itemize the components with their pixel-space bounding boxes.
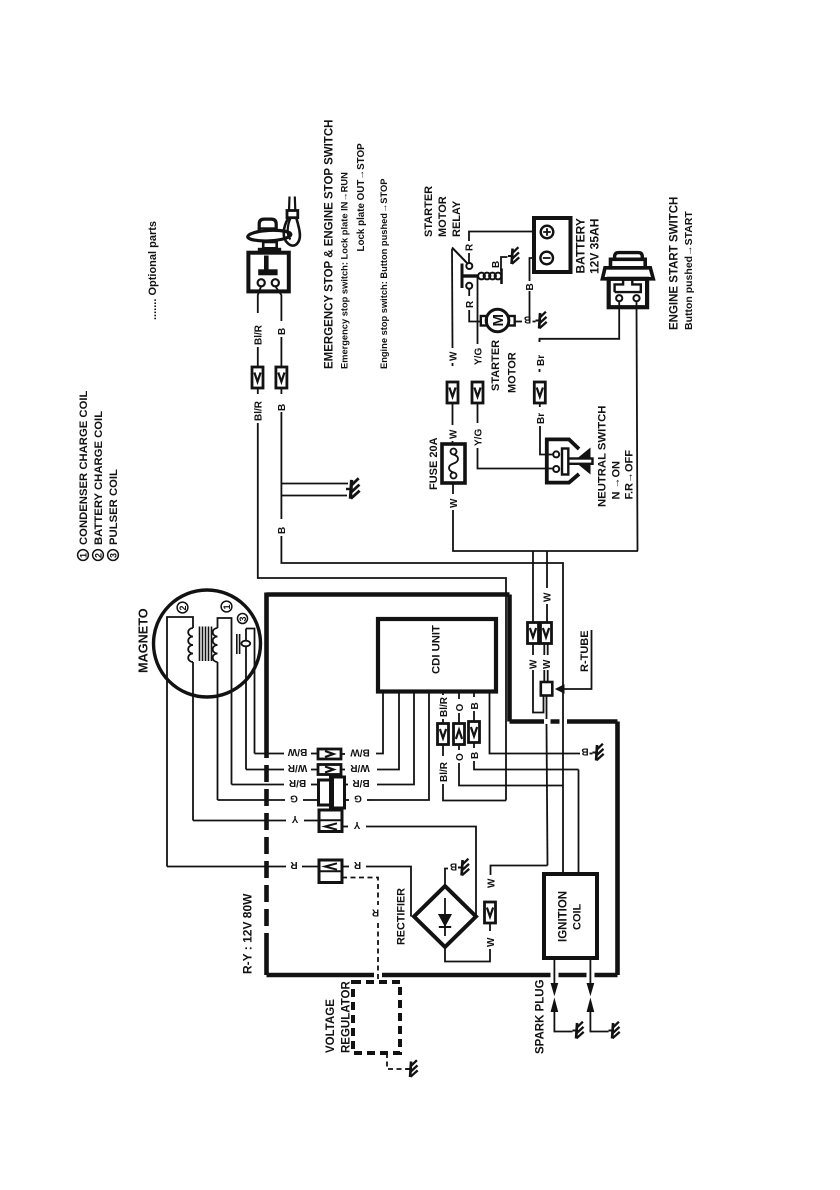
engine border left dashed part (264, 741, 269, 950)
legend circled 3 (108, 550, 119, 561)
svg-text:B: B (491, 261, 502, 268)
svg-text:IGNITION: IGNITION (558, 891, 570, 942)
start switch bezel (602, 268, 653, 279)
connector W left (528, 623, 539, 644)
pulser coil bottom lead (245, 655, 247, 770)
Y row (193, 820, 286, 822)
svg-text:Bl/R: Bl/R (254, 400, 265, 421)
battery box (534, 218, 571, 272)
svg-text:R: R (353, 859, 361, 870)
rectifier diode (444, 898, 446, 936)
battery plus terminal (541, 226, 554, 239)
condenser charge coil (1) (213, 628, 218, 662)
wire W from R-tube line to rectifier (491, 866, 548, 876)
emergency stop switch cap (259, 219, 276, 231)
battery minus terminal (540, 252, 553, 265)
emergency stop switch lock plate (247, 229, 291, 242)
relay fixed contact A (466, 263, 472, 269)
R row (167, 866, 286, 868)
emergency stop switch neck (263, 242, 277, 248)
engine border top (267, 592, 510, 597)
connector on rectifier W wire (485, 902, 496, 923)
connector on Bl/R pin (438, 724, 449, 745)
starter motor circle (486, 309, 509, 332)
neutral switch plunger shaft (568, 459, 593, 464)
svg-text:RELAY: RELAY (451, 200, 463, 237)
svg-text:W/R: W/R (287, 762, 307, 773)
CDI pin B/R (377, 692, 414, 785)
svg-text:R-Y : 12V 80W: R-Y : 12V 80W (241, 893, 255, 974)
wire Y/G to neutral switch (477, 404, 479, 424)
connector W right (541, 623, 552, 644)
svg-text:Engine stop switch: Button pus: Engine stop switch: Button pushed→STOP (379, 179, 389, 369)
wire Bl/R down and across to CDI (257, 389, 259, 394)
svg-text:Y/G: Y/G (474, 348, 485, 365)
svg-text:R: R (465, 300, 476, 308)
svg-text:1: 1 (79, 553, 89, 558)
wire W below fuse (452, 483, 454, 494)
neutral switch plunger wings (579, 449, 590, 458)
svg-text:MOTOR: MOTOR (437, 196, 449, 237)
wire B from relay coil to ground (501, 257, 508, 271)
wire Br to neutral switch (539, 404, 541, 408)
wire Y/G from relay coil down (477, 277, 479, 344)
G row (218, 799, 286, 801)
svg-text:B: B (524, 314, 531, 325)
ground for starter motor (536, 312, 547, 329)
svg-text:MAGNETO: MAGNETO (137, 608, 151, 673)
battery charge coil bottom lead (192, 662, 194, 821)
wire Bl/R from stop switch (258, 287, 261, 314)
wire B continues down to junction with CDI area (280, 496, 282, 520)
svg-text:Y: Y (291, 813, 298, 824)
connector W/R (318, 765, 341, 775)
connector on Br wire (534, 382, 545, 403)
connector Y (319, 810, 342, 832)
svg-text:Emergency stop switch: Lock pl: Emergency stop switch: Lock plate IN→RUN (340, 172, 350, 369)
relay coil (478, 273, 485, 280)
svg-text:RECTIFIER: RECTIFIER (396, 888, 408, 945)
double connector B/R G (319, 780, 333, 805)
connector on W wire (447, 382, 458, 403)
lanyard loop (284, 218, 300, 246)
svg-text:B: B (470, 752, 481, 759)
pulser coil core (237, 634, 240, 654)
magneto core (200, 627, 212, 662)
ground for spark plug right (609, 1022, 620, 1039)
svg-text:F.R→OFF: F.R→OFF (624, 450, 636, 500)
svg-text:CONDENSER CHARGE COIL: CONDENSER CHARGE COIL (78, 391, 90, 545)
neutral switch contact bar (562, 449, 568, 475)
svg-text:PULSER COIL: PULSER COIL (108, 469, 120, 545)
emergency stop switch terminal circles (258, 279, 265, 286)
svg-text:M: M (490, 314, 507, 327)
svg-text:W: W (449, 351, 460, 361)
ground for spark plug left (573, 1022, 584, 1039)
svg-text:Button pushed→START: Button pushed→START (683, 211, 695, 330)
svg-text:W: W (449, 429, 460, 439)
condenser charge coil top lead (218, 618, 232, 785)
wire B from rectifier top to ground (445, 869, 448, 887)
magneto circle (154, 590, 261, 697)
svg-text:Y: Y (353, 819, 360, 830)
dashed wire R to voltage regulator (342, 878, 378, 906)
wire W to rectifier bottom (489, 923, 491, 931)
battery charge coil top lead (167, 617, 193, 867)
start switch body (609, 279, 647, 307)
fuse element (451, 449, 457, 455)
svg-text:R: R (290, 859, 298, 870)
svg-text:Br: Br (536, 355, 547, 366)
wire B to ignition coil (474, 761, 579, 770)
voltage regulator box dashed (353, 982, 400, 1053)
connector on B wire (276, 367, 287, 388)
svg-text:W: W (542, 659, 553, 669)
svg-text:B: B (450, 861, 457, 872)
svg-text:12V 35AH: 12V 35AH (588, 219, 602, 274)
CDI pin W/R (377, 692, 399, 770)
svg-text:B: B (525, 283, 536, 290)
B/W row (255, 753, 285, 755)
svg-text:B: B (277, 328, 288, 335)
svg-text:2: 2 (178, 605, 188, 610)
neutral switch body (547, 439, 579, 482)
svg-text:EMERGENCY STOP & ENGINE STOP S: EMERGENCY STOP & ENGINE STOP SWITCH (324, 120, 336, 369)
wire W from relay blade down (451, 249, 454, 348)
connector B/W (318, 749, 341, 759)
wire into ignition coil left (562, 786, 564, 875)
svg-text:Br: Br (536, 413, 547, 424)
ground for relay coil (508, 247, 519, 264)
svg-text:W: W (449, 498, 460, 508)
rectifier diamond (414, 886, 476, 947)
svg-text:G: G (290, 792, 298, 803)
svg-text:Lock plate OUT→STOP: Lock plate OUT→STOP (356, 143, 367, 252)
spark plug wires (553, 958, 555, 984)
wire from start switch right terminal down (637, 301, 638, 551)
svg-text:BATTERY CHARGE COIL: BATTERY CHARGE COIL (93, 411, 105, 545)
R-tube double line (544, 644, 547, 656)
svg-text:3: 3 (238, 616, 248, 621)
R-tube box (541, 682, 553, 696)
wire W left below connector (532, 644, 534, 656)
connector on O pin (454, 724, 465, 745)
spark plug ground wires (554, 1012, 572, 1032)
spark plug arrows down (551, 984, 557, 995)
start switch cap (615, 253, 643, 260)
wire W to fuse (452, 404, 454, 426)
wire B from stop switch (276, 287, 282, 322)
svg-text:STARTER: STARTER (490, 340, 502, 391)
svg-text:B/W: B/W (287, 746, 307, 757)
svg-text:W: W (486, 937, 497, 947)
CDI pin Bl/R (442, 692, 444, 696)
wire B down to ground junction (280, 389, 282, 394)
lanyard cord clip (287, 211, 298, 218)
svg-text:Bl/R: Bl/R (439, 761, 450, 782)
engine border left solid parts (264, 593, 269, 976)
ignition coil box (544, 874, 597, 958)
dashed wire regulator to ground (387, 1053, 407, 1069)
CDI pin B (473, 692, 475, 698)
svg-text:VOLTAGE: VOLTAGE (325, 999, 337, 1053)
start switch second tier (611, 259, 646, 268)
svg-text:FUSE 20A: FUSE 20A (428, 437, 440, 490)
ground for rectifier (458, 859, 469, 876)
svg-text:O: O (455, 704, 466, 712)
svg-text:Bl/R: Bl/R (439, 696, 450, 717)
wire Y to rectifier (366, 827, 476, 917)
relay armature bar (461, 264, 464, 289)
wire Bl/R to junction (443, 784, 506, 801)
connector on Y/G wire (472, 382, 483, 403)
start switch terminals (616, 295, 622, 301)
svg-text:ENGINE START SWITCH: ENGINE START SWITCH (669, 197, 681, 330)
svg-text:Bl/R: Bl/R (254, 324, 265, 345)
svg-text:COIL: COIL (572, 903, 584, 930)
pulser coil (3) (241, 641, 250, 647)
svg-text:R: R (371, 907, 379, 918)
wire from start switch left terminal to Br (540, 301, 620, 342)
svg-text:1: 1 (222, 604, 232, 609)
wire O to ignition coil junction (459, 763, 563, 786)
wire R from battery plus to relay contact (469, 232, 534, 242)
svg-text:W/R: W/R (350, 762, 370, 773)
relay fixed contact B (466, 283, 472, 289)
svg-text:B: B (581, 746, 588, 757)
legend circled 2 (93, 550, 104, 561)
CDI right pin to ground (490, 692, 581, 754)
fuse box (442, 444, 465, 483)
svg-text:W: W (487, 878, 498, 888)
svg-text:W: W (529, 659, 540, 669)
battery charge coil (2) (188, 628, 193, 662)
legend circled 1 (78, 550, 89, 561)
wire R to rectifier (366, 867, 411, 917)
svg-text:B: B (277, 404, 288, 411)
svg-text:B/R: B/R (288, 777, 306, 788)
svg-text:N →ON: N →ON (611, 461, 623, 500)
svg-text:2: 2 (94, 553, 104, 558)
engine border jog (510, 719, 618, 724)
start switch contact (615, 279, 641, 292)
connector R (319, 860, 342, 883)
engine border bottom (267, 973, 618, 978)
R-TUBE pointer line and arrow (559, 630, 592, 689)
wire B from motor to ground (515, 321, 522, 323)
neutral switch terminals (553, 451, 559, 457)
svg-text:R-TUBE: R-TUBE (579, 630, 591, 672)
pulser coil top lead (246, 629, 255, 754)
svg-text:Y/G: Y/G (474, 429, 485, 446)
svg-text:O: O (455, 753, 466, 761)
circled 2 (177, 602, 188, 613)
connector on Bl/R wire (252, 367, 263, 388)
svg-text:R: R (465, 243, 476, 251)
svg-text:W: W (543, 592, 554, 602)
relay blade (452, 248, 467, 264)
ground for stop switch B wire (346, 478, 360, 498)
connector on B pin (469, 722, 480, 743)
svg-text:B: B (470, 702, 481, 709)
circled 1 (221, 601, 232, 612)
W/R row (246, 769, 284, 771)
svg-text:G: G (354, 792, 362, 803)
engine border right lower (615, 722, 620, 976)
svg-text:....... Optional parts: ....... Optional parts (147, 221, 159, 320)
svg-text:B/W: B/W (350, 746, 370, 757)
lanyard cord ends (288, 197, 291, 211)
svg-text:BATTERY: BATTERY (574, 218, 588, 273)
CDI unit box (378, 619, 496, 692)
emergency stop switch contact T (264, 256, 269, 271)
svg-text:CDI UNIT: CDI UNIT (431, 625, 443, 674)
emergency stop switch body (248, 253, 288, 292)
starter motor terminals (481, 316, 487, 326)
R-tube output wire (546, 696, 548, 720)
svg-text:B/R: B/R (352, 777, 370, 788)
wire into ignition coil right (578, 770, 580, 875)
svg-text:SPARK PLUG: SPARK PLUG (535, 979, 547, 1054)
CDI pin B/W (376, 692, 383, 754)
condenser charge coil bottom lead (217, 662, 219, 800)
ground for regulator (407, 1060, 418, 1077)
wire W drop to left connector (532, 551, 534, 622)
spark plug arrows up (551, 1000, 557, 1012)
CDI pin O (458, 692, 460, 700)
wire W drop to right connector (546, 551, 548, 588)
CDI pin G (371, 692, 429, 801)
svg-text:REGULATOR: REGULATOR (341, 981, 353, 1053)
B/R row (232, 784, 285, 786)
circled 3 (238, 614, 248, 624)
engine border right upper (507, 595, 512, 722)
svg-text:MOTOR: MOTOR (507, 352, 519, 393)
svg-text:STARTER: STARTER (423, 186, 435, 237)
wire B from battery minus (530, 258, 535, 281)
svg-text:3: 3 (109, 553, 119, 558)
wire Br from start switch (539, 339, 541, 342)
svg-text:NEUTRAL SWITCH: NEUTRAL SWITCH (597, 406, 609, 507)
svg-text:B: B (277, 527, 288, 534)
ground for CDI (593, 744, 604, 761)
wire R from contact B to starter motor (468, 289, 470, 296)
